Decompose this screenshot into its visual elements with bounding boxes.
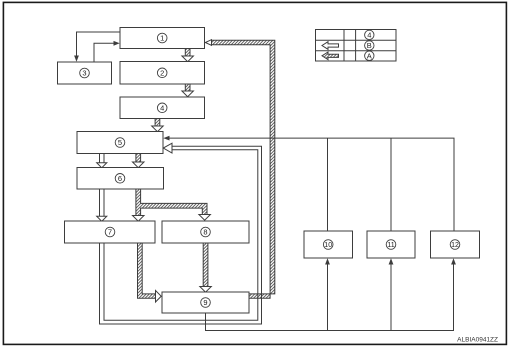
box 10 (304, 231, 353, 258)
plain line: tops of 10/11/12 up and left into box5 right (169, 138, 455, 231)
box 3 (58, 62, 112, 84)
wire: box1 to box3 (L path down) (77, 32, 121, 57)
box 4 (120, 97, 205, 119)
hatched arrow: box2 to box4 (185, 84, 190, 91)
hatched arrow: box4 to box5 (155, 119, 160, 127)
box 11 (367, 231, 415, 258)
box 2 (120, 62, 205, 85)
svg-text:10: 10 (324, 242, 332, 249)
svg-text:9: 9 (203, 298, 207, 307)
hatched path: box6 down to box7 with branch right to box8 (136, 189, 207, 216)
svg-text:6: 6 (118, 174, 122, 183)
legend circled B (365, 41, 374, 50)
box 8 (162, 221, 249, 243)
box 6 (77, 168, 164, 190)
hatched arrow: box8 to box9 (203, 243, 208, 287)
svg-text:7: 7 (108, 228, 112, 237)
hatched arrow: box5 to box6 (136, 154, 141, 163)
hatched arrow: box1 to box2 (185, 49, 190, 57)
hollow B path: box6 to box7 arrow (100, 189, 105, 216)
box 7 (65, 221, 156, 243)
svg-text:12: 12 (451, 242, 459, 249)
hatched path: box7 bottom to box9 left (138, 243, 156, 298)
svg-text:4: 4 (160, 103, 164, 112)
svg-text:2: 2 (160, 68, 164, 77)
svg-text:1: 1 (160, 34, 164, 43)
svg-text:11: 11 (387, 242, 394, 249)
legend hatched arrow (A) (322, 52, 339, 60)
svg-text:3: 3 (82, 69, 86, 78)
wire: box3 to box1 (L path right) (94, 43, 115, 62)
open arrowhead into box1 right (205, 40, 211, 46)
svg-text:4: 4 (367, 31, 371, 40)
svg-text:ALBIA0941ZZ: ALBIA0941ZZ (457, 337, 498, 344)
hollow B path: box5 to box6 arrow (100, 154, 105, 163)
legend table (316, 30, 397, 62)
legend circled 4 (365, 30, 374, 39)
legend hollow arrow (B) (322, 42, 339, 50)
box 5 (77, 132, 163, 154)
box 9 (162, 292, 249, 313)
hollow B loop: box7 bottom around to box5 right (100, 146, 262, 324)
plain line: box9 bottom to boxes 10/11/12 bottoms (206, 264, 454, 331)
svg-text:8: 8 (203, 228, 207, 237)
svg-text:5: 5 (118, 138, 122, 147)
legend circled A (365, 51, 374, 60)
hatched loop: box9 right to box1 right (A path) (212, 40, 275, 298)
box 1 (120, 28, 205, 49)
box 12 (431, 231, 480, 258)
svg-text:A: A (367, 51, 372, 60)
svg-text:B: B (367, 41, 372, 50)
